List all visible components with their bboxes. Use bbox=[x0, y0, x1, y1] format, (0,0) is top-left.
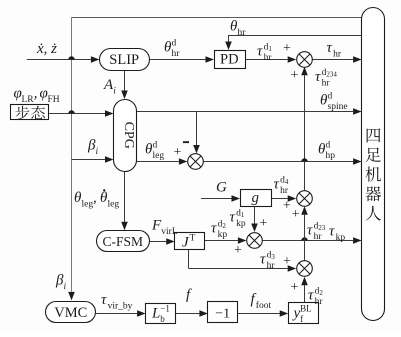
block C-FSM bbox=[97, 231, 150, 252]
svg-text:τ: τ bbox=[211, 221, 217, 237]
svg-text:τ: τ bbox=[230, 210, 236, 226]
svg-text:τ: τ bbox=[274, 177, 280, 193]
wire: JT to sum S4 (tau_kp_d2) bbox=[204, 240, 238, 242]
wire: JT bottom down and right into sum S5 (tau_hr_d3) bbox=[188, 250, 190, 269]
svg-text:T: T bbox=[190, 234, 196, 244]
svg-text:kp: kp bbox=[336, 233, 346, 243]
svg-text:i: i bbox=[96, 147, 99, 157]
wire: C-FSM to JT (F_virL) bbox=[149, 241, 166, 243]
svg-text:+: + bbox=[291, 280, 299, 295]
svg-text:hr: hr bbox=[314, 232, 323, 242]
svg-text:i: i bbox=[64, 282, 67, 292]
block g bbox=[241, 190, 272, 207]
wire: gait box to CPG (hop over bus) bbox=[49, 113, 105, 115]
svg-text:τ: τ bbox=[315, 69, 321, 85]
svg-text:d: d bbox=[153, 141, 158, 151]
wire: beta_i branch from bus to CPG bbox=[72, 159, 105, 161]
svg-text:C-FSM: C-FSM bbox=[103, 234, 144, 249]
svg-text:virL: virL bbox=[161, 227, 178, 237]
wire: sum S4 output tau_kp to robot (hop over tau column) bbox=[262, 240, 353, 242]
svg-text:τ: τ bbox=[308, 288, 314, 304]
svg-text:d: d bbox=[328, 92, 333, 102]
svg-text:hr: hr bbox=[267, 261, 276, 271]
svg-text:+: + bbox=[259, 216, 267, 231]
wire: robot top feedback bus (robot left edge to left bus, down to VMC) bbox=[72, 17, 362, 19]
svg-text:VMC: VMC bbox=[54, 305, 87, 321]
wire: SLIP down to CPG (A_i) bbox=[124, 70, 126, 91]
block SLIP bbox=[100, 49, 150, 71]
wire: Lb inverse to -1 block (f) bbox=[176, 313, 200, 315]
block -1 gain bbox=[208, 302, 238, 323]
wire: CPG theta_leg_d output into sum S2 bbox=[137, 161, 179, 163]
svg-text:hr: hr bbox=[280, 186, 289, 196]
wire: sum S3 up to sum S1 (tau_hr_d234) bbox=[304, 75, 306, 190]
svg-text:+: + bbox=[283, 199, 291, 214]
svg-text:d234: d234 bbox=[322, 68, 338, 79]
block CPG bbox=[114, 100, 137, 172]
svg-text:d: d bbox=[172, 39, 177, 49]
svg-text:b: b bbox=[160, 314, 165, 324]
svg-text:+: + bbox=[290, 68, 298, 83]
svg-text:foot: foot bbox=[256, 300, 272, 311]
svg-text:hr: hr bbox=[315, 297, 324, 307]
svg-text:hr: hr bbox=[264, 53, 273, 63]
summing junction S1 (tau_hr) bbox=[297, 52, 313, 68]
wire: -1 block to yf (f_foot) bbox=[238, 313, 280, 315]
svg-text:g: g bbox=[252, 190, 260, 206]
sign - at S2 from above bbox=[183, 141, 189, 143]
summing junction S4 (tau_kp) bbox=[247, 233, 263, 249]
wire: sum S5 up to sum S3 (tau_hr_d23), crosses tau_kp line bbox=[304, 215, 306, 261]
svg-text:hr: hr bbox=[322, 79, 331, 89]
wire: g to sum S3 (tau_hr_d4) bbox=[271, 198, 288, 200]
block VMC bbox=[46, 302, 96, 323]
svg-text:hr: hr bbox=[238, 28, 247, 38]
svg-text:τ: τ bbox=[327, 40, 333, 56]
summing junction S5 (tau_hr_d23) bbox=[297, 261, 313, 277]
svg-text:leg: leg bbox=[153, 151, 165, 161]
svg-text:f: f bbox=[300, 314, 303, 324]
svg-text:BL: BL bbox=[300, 304, 312, 314]
svg-text:+: + bbox=[234, 243, 242, 258]
svg-text:i: i bbox=[113, 87, 116, 97]
block JT (Jacobian transpose) bbox=[175, 233, 205, 250]
wire: branch down from spine line into sum S2 (minus) bbox=[196, 111, 198, 145]
block PD bbox=[215, 51, 246, 69]
wire: CPG down to C-FSM (theta_leg feedback) bbox=[124, 172, 126, 222]
wire: sum S2 output theta_hp_d to robot (hop over tau column) bbox=[203, 161, 353, 163]
block yf BL bbox=[289, 303, 319, 324]
wire: G input into g block bbox=[201, 198, 232, 200]
svg-text:d1: d1 bbox=[236, 209, 245, 220]
svg-text:+: + bbox=[283, 254, 291, 269]
svg-text:τ: τ bbox=[257, 44, 263, 60]
svg-text:τ: τ bbox=[260, 252, 266, 268]
wire: sum S1 output tau_hr to robot bbox=[312, 59, 353, 61]
svg-text:kp: kp bbox=[236, 219, 246, 229]
wire: PD to sum S1 bbox=[245, 59, 288, 61]
svg-text:vir_by: vir_by bbox=[108, 302, 133, 312]
svg-text:,: , bbox=[93, 190, 97, 206]
svg-text:,: , bbox=[34, 86, 38, 102]
svg-text:ẋ, ż: ẋ, ż bbox=[36, 41, 57, 57]
svg-text:τ: τ bbox=[329, 224, 335, 240]
svg-text:τ: τ bbox=[307, 223, 313, 239]
summing junction S3 (tau_hr_d234) bbox=[297, 191, 313, 207]
summing junction S2 (theta_hp) bbox=[188, 154, 204, 170]
svg-text:SLIP: SLIP bbox=[109, 52, 139, 68]
svg-text:G: G bbox=[216, 180, 227, 196]
svg-text:hp: hp bbox=[326, 151, 336, 161]
wire: VMC to Lb inverse (tau_vir_by) bbox=[96, 313, 137, 315]
svg-text:d3: d3 bbox=[267, 251, 276, 262]
svg-text:+: + bbox=[283, 41, 291, 56]
svg-text:leg: leg bbox=[82, 200, 94, 210]
wire: xdot zdot input into SLIP (hop over bus) bbox=[27, 59, 91, 61]
svg-text:−1: −1 bbox=[215, 306, 230, 321]
block quadruped robot (si zu ji qi ren) bbox=[362, 8, 385, 321]
svg-text:CPG: CPG bbox=[121, 122, 136, 149]
svg-text:τ: τ bbox=[101, 292, 107, 308]
svg-text:d23: d23 bbox=[314, 222, 326, 233]
wire: g down to sum S4 (tau_kp_d1) bbox=[254, 207, 256, 224]
svg-text:leg: leg bbox=[108, 200, 120, 210]
svg-text:LR: LR bbox=[22, 95, 35, 105]
svg-text:+: + bbox=[174, 145, 182, 160]
svg-text:d2: d2 bbox=[315, 287, 324, 298]
svg-text:FH: FH bbox=[48, 95, 60, 105]
wire: theta_hr feedback from robot into PD bbox=[229, 35, 362, 37]
wire: CPG theta_spine output to robot bbox=[137, 111, 354, 113]
block gait (bu tai) bbox=[11, 105, 49, 120]
svg-text:spine: spine bbox=[328, 102, 348, 112]
svg-text:hr: hr bbox=[333, 50, 342, 60]
svg-text:−1: −1 bbox=[160, 304, 170, 314]
wire: SLIP to PD bbox=[149, 59, 205, 61]
svg-text:kp: kp bbox=[218, 230, 228, 240]
svg-text:d2: d2 bbox=[218, 220, 227, 231]
block Lb inverse bbox=[146, 304, 176, 324]
svg-text:d4: d4 bbox=[280, 176, 289, 187]
svg-text:PD: PD bbox=[220, 52, 239, 68]
svg-text:L: L bbox=[151, 306, 160, 322]
svg-text:d: d bbox=[326, 140, 331, 150]
svg-text:hr: hr bbox=[172, 49, 181, 59]
wire: yf up into sum S5 (tau_hr_d2) bbox=[304, 285, 306, 303]
svg-text:d1: d1 bbox=[264, 43, 273, 54]
svg-text:+: + bbox=[292, 207, 300, 222]
